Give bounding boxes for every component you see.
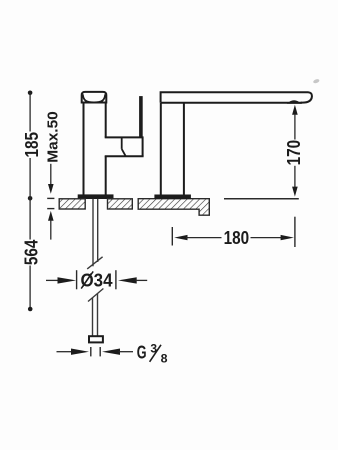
faucet mixer body column xyxy=(84,103,106,196)
dimension 170 xyxy=(224,105,304,199)
dimension 185 xyxy=(22,91,42,201)
countertop deck middle piece xyxy=(108,199,133,209)
countertop deck right piece with edge nosing xyxy=(138,199,209,216)
hose break slash lower xyxy=(88,289,103,302)
svg-text:564: 564 xyxy=(22,240,42,266)
supply hose upper segment xyxy=(93,199,98,266)
spout aerator outlet xyxy=(287,100,302,104)
svg-text:170: 170 xyxy=(284,140,304,166)
dimension Max.50 xyxy=(45,111,62,239)
lever handle bar xyxy=(139,96,143,137)
svg-text:8: 8 xyxy=(161,351,168,365)
hose break slash upper xyxy=(87,257,102,269)
svg-text:Max.50: Max.50 xyxy=(45,111,62,163)
spout arm xyxy=(161,92,312,103)
dimension G 3/8 xyxy=(57,341,168,365)
supply hose lower segment xyxy=(93,294,98,337)
svg-text:G: G xyxy=(137,342,147,363)
spout column xyxy=(161,103,184,195)
dimension 180 xyxy=(172,217,295,248)
spout base plate xyxy=(155,195,191,199)
svg-text:Ø34: Ø34 xyxy=(81,271,113,291)
svg-text:180: 180 xyxy=(224,228,250,248)
faucet mixer cap xyxy=(82,92,107,103)
G3/8 fitting xyxy=(89,336,103,342)
countertop deck left piece xyxy=(59,199,85,209)
mixer base plate xyxy=(78,195,113,199)
svg-text:185: 185 xyxy=(22,132,42,158)
faint print smudge xyxy=(313,78,320,84)
dimension 564 xyxy=(22,198,42,311)
lever valve block xyxy=(105,136,144,156)
dimension diameter 34 xyxy=(46,270,147,290)
